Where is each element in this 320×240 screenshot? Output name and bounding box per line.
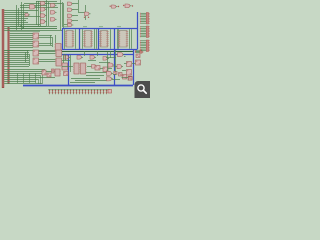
connector J4 [136,50,140,52]
gate GM5 [92,65,97,69]
gate G12 [68,14,72,17]
component U4 [33,58,39,64]
component R1 [123,75,127,80]
component C1 [42,70,46,75]
zoom button [135,81,154,102]
gate GR1 [118,53,123,57]
component U2 [33,41,39,47]
gate G11 [68,8,72,11]
IC labels [64,25,121,28]
gate G9 [51,18,56,22]
gate G16 dots [84,17,85,18]
ic U9 [74,63,79,74]
component U3 [33,50,39,56]
wire under boxes [62,51,133,53]
wires gate rows [10,2,62,32]
gate G1 [30,5,35,10]
component C3 [52,69,55,73]
gate G10 [68,2,72,5]
component R4 [127,70,132,76]
gate G17 dots [110,6,111,7]
wires top group [4,11,62,31]
component U1 [33,33,39,39]
component R3 [136,60,141,65]
wires lower group [4,51,29,67]
ic U8 [62,63,68,70]
ic U6 [56,50,62,57]
ic U5 [56,44,62,51]
gate G18 dots [123,5,124,6]
ic IC1 [66,31,73,48]
gate G8 [51,11,56,15]
wires to mid comps [4,34,62,62]
ic IC3 [101,31,108,48]
gate G6 [41,20,46,24]
component R8 [114,71,117,74]
bus B2 ticks [7,28,10,82]
selection box lower [23,50,134,86]
gate GR5 [106,77,111,81]
wires bottom group [4,70,55,85]
wire stub [78,12,86,14]
component R6 [129,77,133,80]
gate G13 [68,19,72,22]
gate G16 [85,12,90,16]
gate GR2 [108,63,113,67]
connector J2 [141,26,146,28]
ic U7 [56,58,62,66]
wire stubs colD [64,4,78,25]
connector J1 [141,12,146,14]
bus B1 [2,9,4,88]
wires inside boxes [65,29,132,49]
connector row bottom [48,89,112,94]
component R5 [136,54,140,58]
wires lower verticals [26,50,30,66]
gate GM1 [64,56,69,60]
component R2 [127,62,132,67]
gate G14 [68,23,72,26]
gate G18 [125,4,130,8]
vertical wires [17,0,86,30]
ic IC2 [85,31,92,48]
junction dots [20,25,23,28]
gate GM3 [90,56,95,60]
gate G4 [41,8,46,12]
connector J3 [141,40,146,42]
gate GR4 [106,71,111,75]
selection box IC row [62,29,138,50]
ic IC4 [119,31,127,48]
wires bottom right [106,50,136,80]
gate GM2 [77,56,82,60]
component C6 [64,72,69,76]
gate G2 [25,14,29,17]
wires lower middle [62,51,112,83]
component C4 [95,66,100,71]
gate G17 [112,5,117,8]
component C5 [103,67,108,72]
gate G7 [51,4,56,8]
selection box right edge [137,12,139,29]
gate G5 [41,14,46,18]
gate GR3 [117,65,122,69]
ic U11 [55,69,60,76]
bus B1 ticks [2,10,5,86]
bus B2 [8,27,10,84]
component R7 [128,76,132,80]
component R9 [119,73,123,77]
background [0,0,150,98]
component C2 [47,73,51,77]
gate GM4 [103,57,108,61]
gate G3 [41,2,46,6]
ic U10 [81,63,86,74]
